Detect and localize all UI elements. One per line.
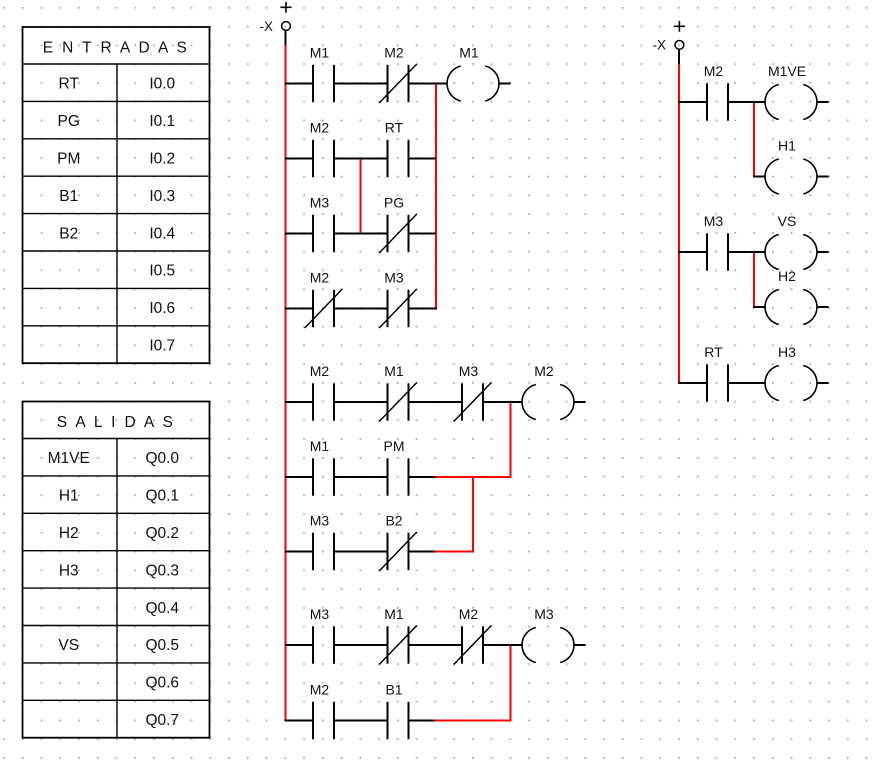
svg-text:M1: M1 bbox=[459, 45, 479, 61]
svg-text:M1: M1 bbox=[384, 363, 404, 379]
svg-text:M3: M3 bbox=[534, 606, 554, 622]
svg-text:Q0.5: Q0.5 bbox=[145, 637, 179, 654]
svg-text:M3: M3 bbox=[384, 270, 404, 286]
svg-text:I0.7: I0.7 bbox=[149, 338, 175, 355]
svg-text:H2: H2 bbox=[778, 268, 796, 284]
svg-text:Q0.4: Q0.4 bbox=[145, 600, 179, 617]
svg-text:Q0.6: Q0.6 bbox=[145, 675, 179, 692]
svg-text:H1: H1 bbox=[778, 138, 796, 154]
svg-text:M3: M3 bbox=[459, 363, 479, 379]
svg-text:B1: B1 bbox=[385, 682, 402, 698]
svg-text:PM: PM bbox=[57, 151, 80, 168]
svg-text:I0.3: I0.3 bbox=[149, 188, 175, 205]
svg-text:VS: VS bbox=[778, 213, 797, 229]
svg-text:RT: RT bbox=[704, 344, 723, 360]
svg-text:M1: M1 bbox=[310, 45, 330, 61]
svg-text:Q0.1: Q0.1 bbox=[145, 488, 179, 505]
svg-text:I0.4: I0.4 bbox=[149, 225, 175, 242]
svg-text:H1: H1 bbox=[59, 488, 79, 505]
svg-text:I0.1: I0.1 bbox=[149, 113, 175, 130]
svg-text:I0.6: I0.6 bbox=[149, 300, 175, 317]
svg-text:B2: B2 bbox=[59, 225, 78, 242]
svg-text:M3: M3 bbox=[310, 513, 330, 529]
svg-text:H3: H3 bbox=[778, 344, 796, 360]
svg-text:Q0.7: Q0.7 bbox=[145, 712, 179, 729]
svg-text:H2: H2 bbox=[59, 525, 79, 542]
svg-text:M2: M2 bbox=[310, 270, 330, 286]
svg-text:I0.5: I0.5 bbox=[149, 263, 175, 280]
svg-text:B2: B2 bbox=[385, 513, 402, 529]
svg-text:M2: M2 bbox=[384, 45, 404, 61]
svg-text:-X: -X bbox=[653, 37, 667, 52]
svg-text:PM: PM bbox=[384, 438, 405, 454]
svg-text:M2: M2 bbox=[310, 682, 330, 698]
svg-text:M2: M2 bbox=[310, 363, 330, 379]
svg-text:B1: B1 bbox=[59, 188, 78, 205]
svg-text:VS: VS bbox=[58, 637, 79, 654]
svg-text:Q0.2: Q0.2 bbox=[145, 525, 179, 542]
svg-text:S A L I D A S: S A L I D A S bbox=[57, 414, 176, 431]
svg-text:M2: M2 bbox=[534, 363, 554, 379]
svg-text:-X: -X bbox=[260, 19, 274, 34]
svg-text:M2: M2 bbox=[310, 120, 330, 136]
svg-text:M3: M3 bbox=[310, 195, 330, 211]
svg-text:M2: M2 bbox=[704, 63, 724, 79]
svg-text:I0.0: I0.0 bbox=[149, 76, 175, 93]
svg-text:M1VE: M1VE bbox=[48, 450, 90, 467]
svg-text:E N T R A D A S: E N T R A D A S bbox=[43, 40, 190, 57]
svg-text:Q0.3: Q0.3 bbox=[145, 562, 179, 579]
svg-text:H3: H3 bbox=[59, 562, 79, 579]
svg-text:M3: M3 bbox=[310, 606, 330, 622]
svg-text:M2: M2 bbox=[459, 606, 479, 622]
svg-text:Q0.0: Q0.0 bbox=[145, 450, 179, 467]
svg-text:M3: M3 bbox=[704, 213, 724, 229]
svg-text:I0.2: I0.2 bbox=[149, 151, 175, 168]
svg-text:RT: RT bbox=[59, 76, 80, 93]
svg-text:RT: RT bbox=[385, 120, 404, 136]
svg-text:M1: M1 bbox=[310, 438, 330, 454]
svg-text:M1: M1 bbox=[384, 606, 404, 622]
svg-text:PG: PG bbox=[58, 113, 80, 130]
svg-text:M1VE: M1VE bbox=[768, 63, 806, 79]
svg-text:PG: PG bbox=[384, 195, 404, 211]
